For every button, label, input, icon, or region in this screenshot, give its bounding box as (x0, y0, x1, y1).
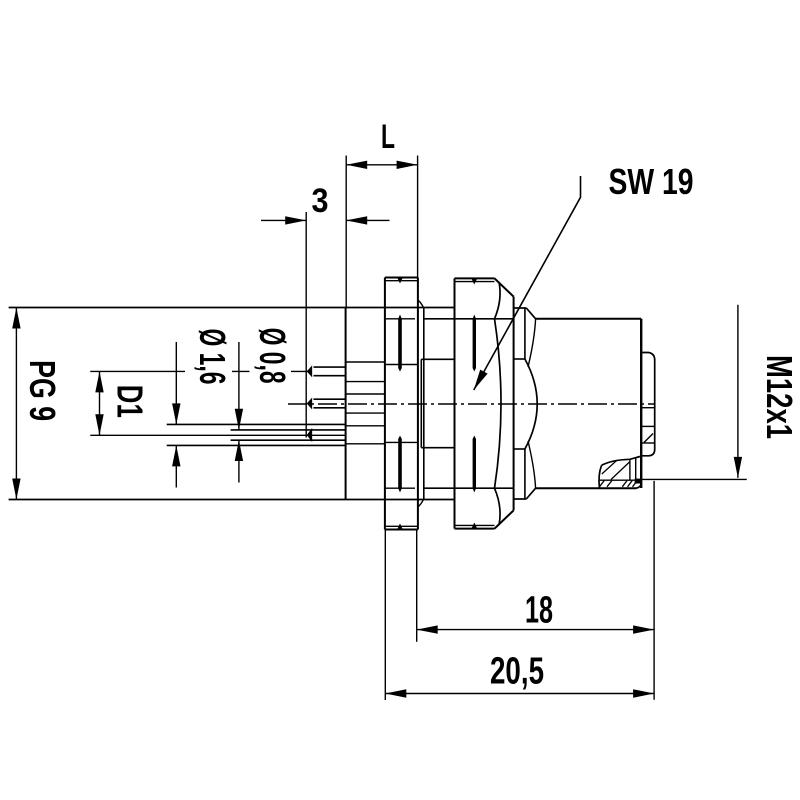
shroud right edge (654, 360, 656, 450)
flange band top line (386, 318, 415, 320)
pin 2 tip (308, 399, 312, 408)
flange right edge (417, 278, 419, 530)
wedge hatch 1 (602, 460, 617, 474)
keyway mid line (599, 479, 635, 481)
svg-text:Ø 1,6: Ø 1,6 (192, 329, 233, 385)
pin 2 bottom line (314, 407, 346, 409)
18 extension line left (416, 530, 418, 642)
cylinder bottom edge (536, 487, 637, 489)
hex top edge (455, 277, 495, 279)
PG9 dimension line (15, 308, 17, 500)
hex bottom-right chamfer (495, 510, 514, 528)
svg-text:D1: D1 (110, 385, 151, 418)
SW19 leader line (474, 176, 581, 390)
mid-body front edge (423, 308, 425, 500)
pin1 center leader segment 2 (232, 370, 250, 372)
L arrow right (397, 161, 418, 169)
pin 1 top line (314, 366, 346, 368)
hex top second line (455, 281, 495, 283)
svg-text:L: L (381, 118, 395, 156)
flange bottom tick (397, 524, 403, 530)
pin3 channel bottom (346, 443, 385, 445)
mid-body inner edge (420, 359, 422, 447)
hatch line b (607, 481, 612, 487)
collar bottom chamfer (526, 488, 535, 499)
svg-text:3: 3 (312, 182, 329, 220)
hex bottom tick (472, 523, 478, 529)
svg-text:Ø 0,8: Ø 0,8 (252, 328, 293, 384)
hex bottom second line (455, 524, 495, 526)
SW19 leader arrowhead (474, 370, 488, 390)
flange top second line (385, 280, 418, 282)
pin2 channel top (346, 393, 385, 395)
L arrow left (346, 161, 367, 169)
hatch line e (633, 481, 638, 487)
D1 arrow down (95, 414, 103, 435)
18 arrow right (633, 625, 654, 633)
mid-body inner bottom line (421, 447, 454, 449)
flange left edge (384, 278, 386, 530)
hex seal bar bottom (473, 436, 476, 493)
PG9 arrow down (12, 479, 20, 500)
20,5 extension line left (384, 530, 386, 701)
svg-text:20,5: 20,5 (490, 650, 544, 692)
dia0.8 dim line top (238, 342, 240, 430)
gasket top line (514, 358, 525, 360)
L extension line right (417, 156, 419, 278)
wire conductor top line (231, 429, 346, 431)
hatch line d (628, 481, 633, 487)
wire insulation top line (167, 423, 346, 425)
20,5 arrow right (633, 689, 654, 697)
pin 3 tip (308, 430, 312, 440)
18 arrow left (417, 625, 438, 633)
flange inner line upper (386, 364, 418, 366)
thread runout arc top (528, 319, 536, 367)
dia0.8 arrow down (235, 409, 243, 430)
pin1 center leader segment 3 (291, 370, 308, 372)
3 arrow left (points right) (285, 216, 306, 224)
svg-text:M12x1: M12x1 (759, 355, 800, 439)
hex top face arc (495, 282, 501, 319)
pin2 channel bottom (346, 412, 385, 414)
right extension line (shroud tip) (653, 481, 655, 700)
hex seal bar top (473, 315, 476, 372)
3 extension line (305, 212, 307, 438)
collar top edge (514, 307, 527, 309)
collar top chamfer (526, 308, 535, 319)
keyway nose arc (599, 465, 602, 488)
body left edge (345, 308, 347, 500)
flange seal bar bottom (398, 436, 402, 493)
keyway bottom corner arc (637, 484, 642, 489)
hex front face arc (495, 319, 502, 488)
flange seal bar top (398, 315, 402, 372)
gasket barrel arc (525, 359, 537, 449)
svg-text:SW 19: SW 19 (609, 161, 694, 202)
wire insulation bottom line (167, 444, 346, 446)
gasket vertical lower (524, 449, 526, 499)
centerline (288, 403, 656, 405)
M12x1 arrow down (734, 457, 742, 478)
20,5 dimension line (385, 693, 654, 695)
pin 2 top line (314, 398, 346, 400)
dia0.8 arrow up (235, 440, 243, 461)
flange bottom second line (385, 525, 418, 527)
dia1.6 arrow up (172, 445, 180, 466)
band bottom line (midbody to hex) (424, 487, 514, 489)
L extension line left (345, 156, 347, 308)
20,5 arrow left (385, 689, 406, 697)
wire conductor bottom line (231, 439, 346, 441)
pin 1 bottom line (314, 375, 346, 377)
shroud inner line 2 (641, 425, 655, 427)
gasket bottom line (514, 448, 525, 450)
dia1.6 dim line top (175, 342, 177, 424)
hatch line c (622, 481, 627, 487)
flange bottom edge (385, 529, 418, 531)
keyway vertical 1 (629, 459, 631, 480)
keyway top edge (602, 457, 640, 466)
PG9 bottom line (9, 499, 455, 501)
hex bottom edge (455, 528, 495, 530)
svg-text:18: 18 (525, 589, 553, 631)
dia1.6 arrow down (172, 403, 180, 424)
flange top tick (397, 278, 403, 284)
shroud inner line 1 (641, 407, 655, 409)
M12x1 extension line (642, 478, 747, 480)
band top line (midbody to hex) (424, 318, 514, 320)
pin 1 tip (308, 367, 312, 376)
PG9 top line (9, 307, 455, 309)
3 dimension tail left (261, 219, 306, 221)
cylinder top edge (536, 318, 642, 320)
wire center line (pin3 center) (90, 434, 345, 436)
shroud bottom corner (641, 450, 655, 456)
L dimension line (346, 164, 417, 166)
shroud inner line 3 (642, 442, 655, 444)
hex right edge (513, 297, 515, 511)
3 arrow right (points left) (346, 216, 367, 224)
flange band bottom line (386, 487, 415, 489)
mid-body top chamfer arc (418, 301, 423, 308)
thread runout arc bottom (528, 441, 536, 488)
18 dimension line (417, 629, 654, 631)
cylinder right edge (640, 319, 642, 488)
D1 dimension line (99, 371, 101, 435)
M12x1 dimension line (737, 305, 739, 478)
flange inner line lower (386, 441, 418, 443)
flange top edge (385, 277, 418, 279)
keyway corner blob (635, 479, 642, 484)
dia1.6 dim line bottom (175, 445, 177, 487)
svg-text:PG 9: PG 9 (22, 360, 63, 421)
PG9 arrow up (12, 308, 20, 329)
hex top-right chamfer (495, 278, 514, 296)
keyway vertical 2 (635, 458, 637, 480)
hex top tick (472, 279, 478, 285)
D1 arrow up (95, 371, 103, 392)
hex bottom face arc (495, 488, 501, 525)
collar bottom edge (514, 498, 527, 500)
pin3 channel top (346, 425, 385, 427)
shroud top edge (641, 353, 655, 361)
mid-body inner top line (421, 358, 454, 360)
hatch line a (599, 481, 604, 487)
shroud keyway diagonal (644, 434, 653, 443)
dia0.8 dim line bottom (238, 440, 240, 483)
3 dimension tail right (346, 219, 389, 221)
wedge hatch 2 (611, 462, 630, 480)
pin1 channel bottom (346, 381, 385, 383)
pin1 channel top (346, 361, 385, 363)
pin1 center leader (90, 370, 185, 372)
hex left edge (454, 278, 456, 528)
mid-body bottom chamfer arc (418, 500, 423, 507)
gasket vertical upper (524, 308, 526, 359)
